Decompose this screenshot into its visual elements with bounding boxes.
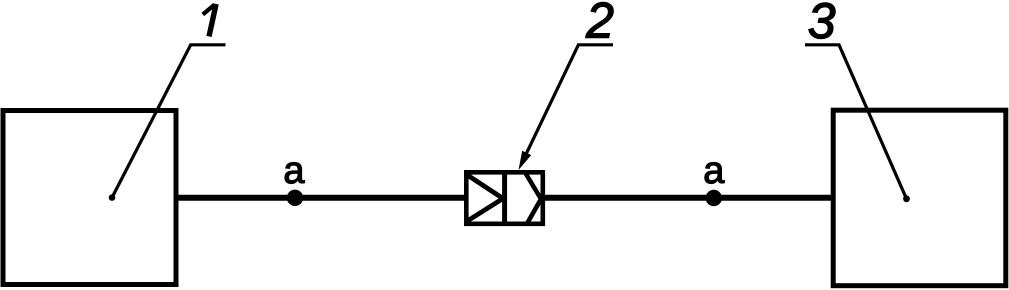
svg-text:2: 2 (585, 0, 614, 48)
wire left: block 1 to connector 2 (176, 195, 466, 201)
connector U2 divider (502, 170, 507, 226)
label 1 (203, 4, 216, 36)
leader dot inside block 3 (903, 195, 910, 202)
leader dot inside block 1 (109, 194, 116, 201)
block 1 (left box) (3, 111, 176, 285)
arrowhead for label 2 pointing at connector (519, 151, 532, 170)
block 3 (right box) (833, 110, 1006, 286)
svg-text:3: 3 (808, 0, 836, 49)
svg-text:a: a (703, 150, 725, 192)
wire right: connector 2 to block 3 (543, 195, 832, 201)
leader line for label 2 (524, 45, 614, 160)
node a (left junction dot) (287, 190, 303, 206)
connector U2 left triangle (plug) (467, 175, 504, 222)
connector U2 body (rectangle) (466, 172, 543, 224)
node a (right junction dot) (706, 190, 722, 206)
leader line for label 3 (805, 45, 907, 199)
leader line for label 1 (112, 45, 226, 198)
svg-text:a: a (283, 150, 305, 192)
connector U2 right chevron (socket) (525, 172, 542, 225)
